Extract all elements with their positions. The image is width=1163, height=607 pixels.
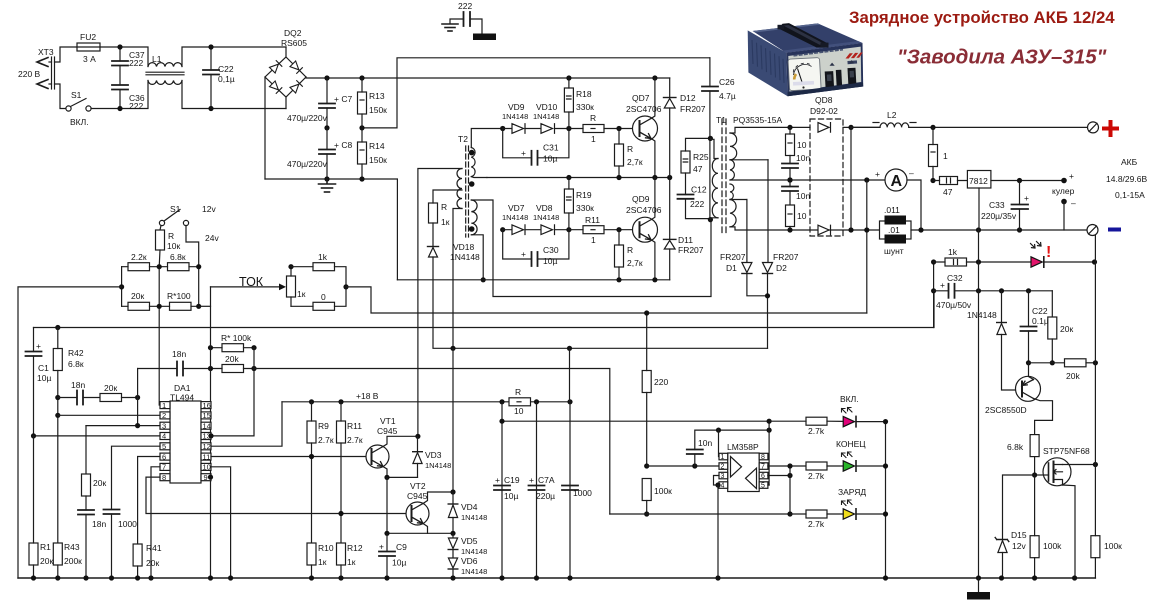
capacitor C9 bbox=[386, 533, 388, 551]
wire driver lower common bbox=[397, 279, 669, 281]
svg-text:R: R bbox=[590, 113, 596, 123]
svg-text:10n: 10n bbox=[796, 191, 810, 201]
Y-capacitor 222 with earth and chassis bbox=[442, 12, 496, 40]
svg-text:+: + bbox=[495, 475, 500, 485]
capacitor C19 bbox=[494, 485, 510, 487]
svg-text:D15: D15 bbox=[1011, 530, 1027, 540]
svg-text:S1: S1 bbox=[71, 90, 82, 100]
wire feedback rail y327 bbox=[34, 291, 935, 328]
svg-text:VT1: VT1 bbox=[380, 416, 396, 426]
wire VT1 emitter node bbox=[387, 476, 418, 478]
svg-text:8: 8 bbox=[761, 454, 765, 461]
regulator 7812 bbox=[967, 171, 991, 189]
svg-text:6.8к: 6.8к bbox=[68, 359, 84, 369]
LED red ! bbox=[1031, 257, 1042, 267]
svg-text:ВКЛ.: ВКЛ. bbox=[840, 394, 859, 404]
svg-text:+: + bbox=[1069, 171, 1074, 181]
svg-text:+ C8: + C8 bbox=[334, 140, 352, 150]
svg-text:STP75NF68: STP75NF68 bbox=[1043, 446, 1090, 456]
svg-text:1: 1 bbox=[591, 134, 596, 144]
svg-text:1k: 1k bbox=[318, 252, 328, 262]
resistor R1 bbox=[29, 543, 38, 565]
resistor R41 bbox=[133, 544, 142, 566]
svg-text:R11: R11 bbox=[347, 421, 362, 431]
svg-text:1N4148: 1N4148 bbox=[450, 252, 480, 262]
capacitor 18n (feedback) bbox=[138, 368, 177, 370]
svg-text:VD9: VD9 bbox=[508, 102, 525, 112]
svg-text:12v: 12v bbox=[1012, 541, 1026, 551]
svg-text:5: 5 bbox=[761, 482, 765, 489]
svg-text:C945: C945 bbox=[407, 491, 428, 501]
svg-text:18n: 18n bbox=[172, 349, 186, 359]
svg-text:1N4148: 1N4148 bbox=[967, 310, 997, 320]
svg-text:2.7k: 2.7k bbox=[808, 426, 825, 436]
svg-text:DA1: DA1 bbox=[174, 383, 191, 393]
svg-text:VD18: VD18 bbox=[453, 242, 475, 252]
svg-text:2: 2 bbox=[721, 463, 725, 470]
LED ЗАРЯД (yellow) bbox=[843, 509, 854, 519]
resistor 100k (LM358 divider) bbox=[642, 479, 651, 501]
svg-text:9: 9 bbox=[204, 473, 208, 482]
svg-text:R12: R12 bbox=[347, 543, 363, 553]
resistor 100k (drain) bbox=[1091, 536, 1100, 558]
wire pin3 bbox=[86, 425, 160, 427]
resistor 20k (pin3 RC) bbox=[85, 426, 87, 474]
svg-text:10: 10 bbox=[514, 406, 524, 416]
svg-text:20к: 20к bbox=[104, 383, 117, 393]
wire +18 feed from D1/D2 bbox=[569, 348, 571, 402]
svg-text:6: 6 bbox=[162, 452, 166, 461]
svg-text:QD8: QD8 bbox=[815, 95, 833, 105]
wire pin8 to VT2 base bbox=[146, 477, 406, 513]
svg-text:2: 2 bbox=[162, 411, 166, 420]
wire pin11 to VT1 base bbox=[211, 456, 366, 458]
resistor R19 330k bbox=[564, 189, 573, 213]
capacitor 18n (pin3 RC) bbox=[85, 496, 87, 510]
svg-text:1: 1 bbox=[162, 401, 166, 410]
svg-text:4: 4 bbox=[162, 432, 166, 441]
svg-text:"Заводила АЗУ–315": "Заводила АЗУ–315" bbox=[897, 46, 1107, 69]
svg-text:LM358P: LM358P bbox=[727, 442, 759, 452]
svg-text:C31: C31 bbox=[543, 143, 559, 153]
svg-text:1к: 1к bbox=[347, 557, 356, 567]
svg-text:222: 222 bbox=[129, 58, 143, 68]
capacitor 1000 (18V bus) bbox=[562, 485, 578, 487]
svg-text:2SC8550D: 2SC8550D bbox=[985, 405, 1027, 415]
svg-text:24v: 24v bbox=[205, 233, 219, 243]
svg-text:R11: R11 bbox=[585, 215, 600, 225]
svg-text:C32: C32 bbox=[947, 273, 963, 283]
svg-text:FR207: FR207 bbox=[720, 252, 746, 262]
svg-text:1N4148: 1N4148 bbox=[461, 567, 487, 576]
ground bbox=[319, 179, 336, 192]
svg-text:20k: 20k bbox=[1066, 371, 1080, 381]
svg-text:FU2: FU2 bbox=[80, 32, 96, 42]
svg-text:FR207: FR207 bbox=[773, 252, 799, 262]
capacitor C30 bbox=[503, 230, 532, 259]
resistor R 10 bbox=[509, 398, 531, 406]
resistor R* 100k bbox=[222, 344, 244, 352]
capacitor C12 222 bbox=[678, 194, 694, 196]
resistor 47 (7812 input) bbox=[940, 177, 958, 185]
svg-text:470µ/220v: 470µ/220v bbox=[287, 159, 328, 169]
svg-text:222: 222 bbox=[458, 1, 472, 11]
resistor 1 (output) bbox=[929, 145, 938, 167]
svg-text:330к: 330к bbox=[576, 102, 594, 112]
svg-text:C7A: C7A bbox=[538, 475, 555, 485]
svg-text:1к: 1к bbox=[297, 289, 306, 299]
rectifier QD8 D92-02 bbox=[810, 119, 843, 236]
resistor 6.8k bbox=[168, 263, 190, 271]
resistor R25 47 bbox=[681, 151, 690, 173]
svg-text:C12: C12 bbox=[691, 185, 707, 195]
svg-text:0: 0 bbox=[321, 292, 326, 302]
svg-text:L1: L1 bbox=[152, 54, 162, 64]
resistor R14 bbox=[358, 142, 367, 164]
capacitor 18n (R42 row) bbox=[58, 397, 77, 399]
inductor L1 (common-mode choke) bbox=[148, 63, 182, 67]
resistor R 2.7k (QD9) bbox=[615, 245, 624, 267]
svg-text:!: ! bbox=[1046, 244, 1051, 261]
resistor 20k (row) bbox=[128, 302, 150, 310]
svg-text:2.7k: 2.7k bbox=[808, 519, 825, 529]
capacitor C8 bbox=[326, 128, 328, 150]
svg-text:1000: 1000 bbox=[118, 519, 137, 529]
resistor 20k (to pin3 node) bbox=[100, 394, 122, 402]
diode D1 FR207 bbox=[746, 200, 748, 263]
svg-text:2SC4706: 2SC4706 bbox=[626, 104, 662, 114]
svg-text:QD9: QD9 bbox=[632, 194, 650, 204]
svg-text:2,7к: 2,7к bbox=[627, 157, 643, 167]
svg-text:+: + bbox=[379, 542, 384, 552]
svg-text:R41: R41 bbox=[146, 543, 162, 553]
svg-text:R18: R18 bbox=[576, 89, 592, 99]
svg-text:47: 47 bbox=[693, 164, 703, 174]
resistor 2.7k (КОНЕЦ) bbox=[768, 465, 806, 467]
svg-text:ЗАРЯД: ЗАРЯД bbox=[838, 487, 866, 497]
wire T1 secondary top bbox=[730, 127, 810, 133]
wire T1 tap to D2 bbox=[730, 159, 768, 161]
svg-text:1N4148: 1N4148 bbox=[461, 547, 487, 556]
svg-text:1N4148: 1N4148 bbox=[533, 112, 559, 121]
svg-text:222: 222 bbox=[690, 199, 704, 209]
svg-text:.01: .01 bbox=[888, 225, 900, 235]
transistor QD7 2SC4706 bbox=[633, 78, 658, 178]
wire half-voltage line to C26 bbox=[362, 58, 710, 128]
svg-text:5: 5 bbox=[162, 442, 166, 451]
wire pin10 bbox=[211, 467, 231, 578]
wire QD8 lower output riser bbox=[850, 127, 852, 230]
svg-text:6.8k: 6.8k bbox=[1007, 442, 1024, 452]
wire T2 drive winding top to VD3 node bbox=[418, 169, 462, 437]
fuse FU2 bbox=[77, 43, 100, 51]
svg-text:15: 15 bbox=[203, 411, 211, 420]
svg-text:2.7к: 2.7к bbox=[347, 435, 363, 445]
LED КОНЕЦ (green) bbox=[843, 461, 854, 471]
diode D11 FR207 bbox=[669, 178, 671, 240]
resistor 20k (upper right) bbox=[1051, 291, 1053, 317]
svg-text:VD8: VD8 bbox=[536, 203, 553, 213]
svg-text:222: 222 bbox=[129, 101, 143, 111]
svg-text:0,1-15А: 0,1-15А bbox=[1115, 190, 1145, 200]
svg-text:R42: R42 bbox=[68, 348, 84, 358]
wire from plug to fuse and switch bbox=[55, 47, 78, 62]
svg-text:L2: L2 bbox=[887, 110, 897, 120]
svg-text:20к: 20к bbox=[1060, 324, 1073, 334]
diode VD18 bbox=[428, 246, 439, 248]
svg-text:1N4148: 1N4148 bbox=[533, 213, 559, 222]
svg-text:R14: R14 bbox=[369, 141, 385, 151]
wire bottom common rail bbox=[18, 577, 1095, 579]
resistor 220 bbox=[642, 371, 651, 393]
svg-text:10µ: 10µ bbox=[543, 154, 557, 164]
svg-text:FR207: FR207 bbox=[678, 245, 704, 255]
svg-text:–: – bbox=[909, 168, 914, 178]
svg-text:18n: 18n bbox=[71, 380, 85, 390]
potentiometer ТОК 1k bbox=[199, 305, 211, 307]
diode VD8 bbox=[525, 225, 569, 235]
svg-text:7: 7 bbox=[162, 463, 166, 472]
IC DA1 TL494 bbox=[170, 401, 201, 483]
svg-text:T2: T2 bbox=[458, 134, 468, 144]
capacitor C1 bbox=[33, 328, 35, 352]
resistor R 10k bbox=[156, 230, 165, 250]
svg-text:1к: 1к bbox=[318, 557, 327, 567]
capacitor C26 4.7µ bbox=[709, 58, 711, 87]
resistor R*100 bbox=[170, 302, 192, 310]
svg-text:100к: 100к bbox=[654, 486, 672, 496]
svg-text:220µ: 220µ bbox=[536, 491, 555, 501]
wire primary ground rail bbox=[265, 179, 397, 280]
wire pin13 / pin9 dots bbox=[208, 433, 213, 438]
diode D12 FR207 bbox=[669, 78, 671, 98]
svg-text:FR207: FR207 bbox=[680, 104, 706, 114]
svg-text:330к: 330к bbox=[576, 203, 594, 213]
svg-text:C9: C9 bbox=[396, 542, 407, 552]
svg-text:VD7: VD7 bbox=[508, 203, 525, 213]
svg-text:C33: C33 bbox=[989, 200, 1005, 210]
svg-text:4.7µ: 4.7µ bbox=[719, 91, 736, 101]
ground (chassis) at bottom bbox=[978, 578, 980, 592]
svg-text:3 А: 3 А bbox=[83, 54, 96, 64]
resistor R43 bbox=[53, 543, 62, 565]
inductor L2 bbox=[851, 126, 880, 128]
wire AC top bbox=[100, 47, 148, 67]
wire bridge minus down to ground rail bbox=[264, 77, 266, 179]
wire pin5 bbox=[112, 446, 161, 509]
svg-text:R19: R19 bbox=[576, 190, 592, 200]
resistor R42 bbox=[53, 349, 62, 371]
connector XT3 bbox=[37, 57, 55, 89]
svg-text:R* 100k: R* 100k bbox=[221, 333, 252, 343]
switch S1 (ВКЛ) bbox=[66, 106, 71, 111]
svg-text:A: A bbox=[891, 173, 903, 190]
svg-text:10n: 10n bbox=[796, 153, 810, 163]
svg-text:.011: .011 bbox=[884, 205, 900, 215]
svg-text:2.7к: 2.7к bbox=[318, 435, 334, 445]
svg-text:14.8/29.6В: 14.8/29.6В bbox=[1106, 174, 1147, 184]
wire T2 lower secondary bottom lead bbox=[471, 235, 483, 280]
svg-text:100k: 100k bbox=[1043, 541, 1062, 551]
resistor 2.2k bbox=[128, 263, 150, 271]
svg-text:10µ: 10µ bbox=[37, 373, 51, 383]
wire feedback long to LED row bbox=[254, 369, 610, 515]
transistor 2SC8550D (PNP) bbox=[1016, 363, 1053, 435]
svg-text:VD3: VD3 bbox=[425, 450, 442, 460]
svg-text:12v: 12v bbox=[202, 204, 216, 214]
resistor R 2.7k (QD7) bbox=[615, 144, 624, 166]
svg-text:2SC4706: 2SC4706 bbox=[626, 205, 662, 215]
diode VD10 bbox=[525, 124, 569, 134]
svg-text:2.2к: 2.2к bbox=[131, 252, 147, 262]
svg-text:+: + bbox=[1024, 193, 1029, 203]
svg-text:R25: R25 bbox=[693, 152, 709, 162]
svg-text:220: 220 bbox=[654, 377, 668, 387]
resistor R11 2.7k bbox=[337, 421, 346, 443]
capacitor C22 (input filter) bbox=[210, 47, 212, 70]
svg-text:+: + bbox=[521, 148, 526, 158]
svg-text:200к: 200к bbox=[64, 556, 82, 566]
svg-text:+: + bbox=[940, 280, 945, 290]
zener D15 12v bbox=[995, 538, 1009, 542]
svg-text:220 В: 220 В bbox=[18, 69, 41, 79]
svg-text:20к: 20к bbox=[40, 556, 53, 566]
svg-text:VD5: VD5 bbox=[461, 536, 478, 546]
svg-text:RS605: RS605 bbox=[281, 38, 307, 48]
svg-text:20к: 20к bbox=[93, 478, 106, 488]
svg-text:18n: 18n bbox=[92, 519, 106, 529]
wire bridge plus rail bbox=[306, 77, 670, 78]
svg-text:R: R bbox=[168, 231, 174, 241]
svg-text:10к: 10к bbox=[167, 241, 180, 251]
svg-text:7: 7 bbox=[761, 463, 765, 470]
wire R10 bypass row bbox=[501, 402, 503, 578]
svg-text:6: 6 bbox=[761, 473, 765, 480]
svg-text:R: R bbox=[441, 202, 447, 212]
svg-text:1N4148: 1N4148 bbox=[502, 213, 528, 222]
capacitor C36 bbox=[112, 84, 128, 86]
svg-text:C26: C26 bbox=[719, 77, 735, 87]
wire pin12 to +18 rail bbox=[211, 402, 282, 446]
wire pin6 bbox=[138, 457, 160, 545]
resistor R9 2.7k bbox=[307, 421, 316, 443]
svg-text:шунт: шунт bbox=[884, 246, 904, 256]
capacitor C22 0.1µ (right) bbox=[1028, 291, 1030, 327]
svg-text:TL494: TL494 bbox=[170, 393, 194, 403]
svg-text:КОНЕЦ: КОНЕЦ bbox=[836, 439, 866, 449]
capacitor C31 bbox=[503, 129, 532, 158]
svg-text:АКБ: АКБ bbox=[1121, 157, 1138, 167]
svg-text:VD6: VD6 bbox=[461, 556, 478, 566]
capacitor C32 bbox=[934, 290, 949, 292]
wire pot output to shunt sense bbox=[346, 287, 867, 313]
wire pin4 bbox=[34, 435, 161, 437]
svg-text:0,1µ: 0,1µ bbox=[218, 74, 235, 84]
svg-text:C22: C22 bbox=[218, 64, 234, 74]
capacitor C33 bbox=[1012, 204, 1029, 206]
resistor R18 330k bbox=[564, 88, 573, 112]
svg-text:D2: D2 bbox=[776, 263, 787, 273]
svg-text:XT3: XT3 bbox=[38, 47, 54, 57]
diode 1N4148 (right) bbox=[1001, 291, 1003, 323]
diode D2 FR207 bbox=[767, 160, 769, 263]
svg-text:1: 1 bbox=[591, 235, 596, 245]
svg-text:ТОК: ТОК bbox=[239, 275, 264, 289]
capacitor C7A bbox=[529, 485, 545, 487]
svg-text:47: 47 bbox=[943, 187, 953, 197]
svg-text:C1: C1 bbox=[38, 363, 49, 373]
svg-text:7812: 7812 bbox=[969, 176, 988, 186]
svg-text:R43: R43 bbox=[64, 542, 80, 552]
svg-text:+ C7: + C7 bbox=[334, 94, 352, 104]
resistor 2.7k (ВКЛ) bbox=[806, 417, 827, 425]
svg-text:1: 1 bbox=[943, 151, 948, 161]
wire pin7 bbox=[151, 467, 160, 578]
svg-text:R10: R10 bbox=[318, 543, 334, 553]
svg-text:R: R bbox=[627, 245, 633, 255]
resistor R11 1 (QD9 base) bbox=[583, 226, 604, 234]
svg-text:R: R bbox=[627, 144, 633, 154]
resistor 1k (pot top) bbox=[313, 263, 335, 271]
svg-text:10µ: 10µ bbox=[543, 256, 557, 266]
svg-text:1к: 1к bbox=[441, 217, 450, 227]
wire gate clamp bbox=[1003, 475, 1035, 540]
photo of charger bbox=[748, 23, 864, 96]
svg-text:D92-02: D92-02 bbox=[810, 106, 838, 116]
transformer T2 bbox=[457, 146, 477, 237]
capacitor C37 bbox=[119, 47, 121, 61]
svg-text:+: + bbox=[529, 475, 534, 485]
MOSFET STP75NF68 bbox=[1035, 458, 1096, 578]
svg-text:20к: 20к bbox=[146, 558, 159, 568]
svg-text:C30: C30 bbox=[543, 245, 559, 255]
svg-text:10: 10 bbox=[797, 211, 807, 221]
capacitor 1000 (pin5) bbox=[104, 509, 120, 511]
transistor VT2 C945 bbox=[406, 492, 453, 533]
svg-text:D1: D1 bbox=[726, 263, 737, 273]
svg-text:C945: C945 bbox=[377, 426, 398, 436]
resistor 20k (feedback) bbox=[222, 365, 244, 373]
diode VD7 bbox=[500, 227, 505, 232]
diode VD5 bbox=[452, 533, 454, 537]
wire driver mid rail bbox=[487, 177, 670, 179]
resistor R10 1k bbox=[307, 543, 316, 565]
svg-text:150к: 150к bbox=[369, 105, 387, 115]
shunt .011 / .01 bbox=[866, 180, 868, 313]
svg-text:1k: 1k bbox=[948, 247, 958, 257]
svg-text:кулер: кулер bbox=[1052, 186, 1075, 196]
svg-text:VD10: VD10 bbox=[536, 102, 558, 112]
resistor R 1k (T2 snubber) bbox=[429, 203, 438, 223]
svg-text:470µ/50v: 470µ/50v bbox=[936, 300, 972, 310]
svg-text:S1: S1 bbox=[170, 204, 181, 214]
svg-text:R1: R1 bbox=[40, 542, 51, 552]
svg-text:2.7k: 2.7k bbox=[808, 471, 825, 481]
capacitor C7 bbox=[326, 78, 328, 104]
svg-text:VT2: VT2 bbox=[410, 481, 426, 491]
svg-text:10µ: 10µ bbox=[392, 558, 406, 568]
svg-text:VD4: VD4 bbox=[461, 502, 478, 512]
svg-text:R*100: R*100 bbox=[167, 291, 191, 301]
svg-text:1N4148: 1N4148 bbox=[425, 461, 451, 470]
svg-text:D11: D11 bbox=[678, 235, 693, 245]
svg-text:3: 3 bbox=[721, 473, 725, 480]
svg-text:14: 14 bbox=[203, 421, 211, 430]
wire T1 secondary mid tap bbox=[730, 179, 885, 181]
diode VD3 bbox=[413, 451, 423, 453]
svg-text:Зарядное устройство АКБ 12/24: Зарядное устройство АКБ 12/24 bbox=[849, 8, 1115, 27]
bridge rectifier DQ2 RS605 bbox=[265, 57, 306, 97]
